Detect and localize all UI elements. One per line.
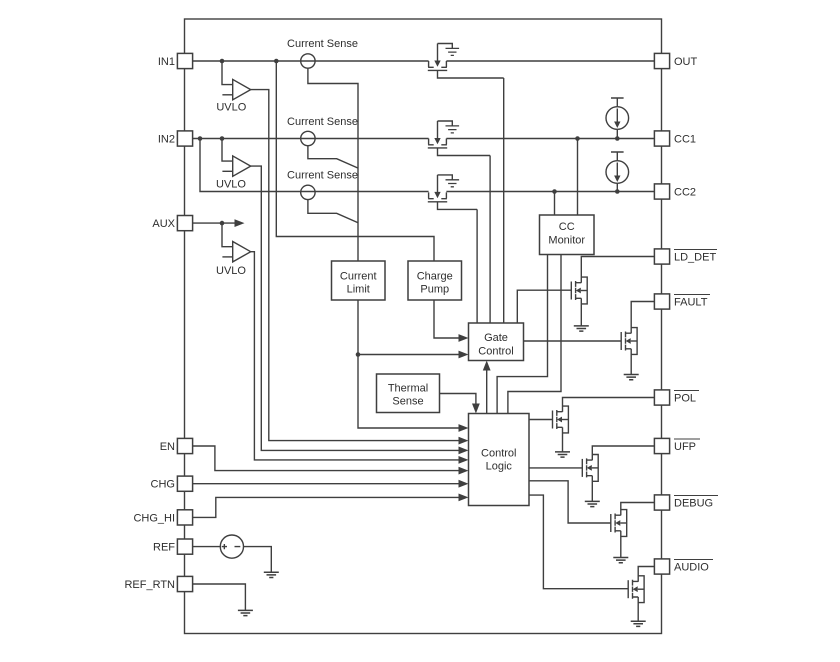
- current sense CS3 circle: [301, 185, 315, 199]
- label AUDIO: [674, 562, 709, 574]
- wire EN to Control Logic: [193, 446, 461, 471]
- svg-text:CC: CC: [559, 221, 575, 233]
- wire IN1 to UVLO1 input: [222, 61, 233, 85]
- block CC Monitor: [540, 215, 595, 255]
- wire LD_DET: [581, 257, 654, 283]
- junction CC1-monitor: [575, 136, 580, 141]
- label Current Sense 2: [287, 116, 358, 128]
- wire Control Logic to Q4 gate: [529, 467, 582, 469]
- transistor Q1 LD_DET: [571, 277, 587, 304]
- label IN1: [158, 56, 175, 68]
- wire Q5 source to ground: [620, 531, 622, 558]
- transistor Q3 POL: [553, 406, 569, 433]
- UVLO1 inverting stub: [222, 94, 232, 96]
- wire Current Sense 2 switch: [308, 146, 358, 168]
- svg-text:Thermal: Thermal: [388, 383, 428, 395]
- svg-text:UVLO: UVLO: [216, 265, 246, 277]
- current source I1: [606, 98, 629, 129]
- svg-text:Charge: Charge: [417, 271, 453, 283]
- wire FAULT: [631, 302, 654, 334]
- ground REF_RTN: [238, 610, 253, 615]
- label REF_RTN: [124, 579, 175, 591]
- wire IN2 to UVLO2 input: [222, 139, 233, 162]
- voltage reference source: [220, 535, 243, 558]
- wire M1 drain to OUT: [446, 60, 654, 62]
- pin AUX: [177, 216, 192, 231]
- wire M2 gate bus: [489, 156, 491, 324]
- pin AUDIO: [654, 559, 669, 574]
- pin CC1: [654, 131, 669, 146]
- ground Q4: [585, 501, 600, 506]
- svg-text:Control: Control: [478, 346, 513, 358]
- wire REF: [193, 547, 272, 573]
- pin FAULT: [654, 294, 669, 309]
- svg-text:FAULT: FAULT: [674, 297, 708, 309]
- wire Current Sense 3 switch: [308, 200, 358, 223]
- transistor Q6 AUDIO: [628, 576, 644, 603]
- label UVLO U3: [216, 265, 246, 277]
- wire AUX: [193, 222, 236, 224]
- wire Charge Pump to Gate Control: [434, 300, 460, 338]
- junction IN2-UVLO2: [220, 136, 225, 141]
- wire CHG_HI to Control Logic: [193, 497, 461, 517]
- junction AUX-UVLO3: [220, 221, 225, 226]
- wire Gate Control to Q1 gate: [517, 290, 571, 323]
- svg-text:CHG: CHG: [151, 479, 175, 491]
- arrow CHG_HI into Control Logic: [459, 494, 469, 502]
- pin REF_RTN: [177, 576, 192, 591]
- label CC1: [674, 134, 696, 146]
- wire Current Limit to Control Logic: [358, 355, 460, 429]
- wire IN1 to Charge Pump: [276, 61, 434, 261]
- ground Q5: [613, 558, 628, 563]
- wire POL: [563, 398, 655, 412]
- wire CHG to Control Logic: [193, 483, 461, 485]
- wire Q3 source to ground: [562, 427, 564, 452]
- junction IN2 branch: [198, 136, 203, 141]
- junction CC2-I2: [615, 189, 620, 194]
- svg-text:UVLO: UVLO: [216, 178, 246, 190]
- svg-text:AUDIO: AUDIO: [674, 562, 709, 574]
- arrow Thermal Sense into Control Logic: [472, 404, 480, 414]
- arrow AUX: [235, 219, 245, 227]
- wire Gate Control to Q2 gate: [524, 340, 622, 342]
- svg-text:Logic: Logic: [486, 461, 513, 473]
- junction current limit branch: [356, 352, 361, 357]
- wire M3 gate bus: [476, 209, 478, 323]
- transistor Q4 UFP: [582, 455, 598, 482]
- svg-text:UVLO: UVLO: [216, 101, 246, 113]
- label UVLO U1: [216, 101, 246, 113]
- block Gate Control: [469, 323, 524, 361]
- wire Thermal Sense to Control Logic: [440, 394, 476, 406]
- label POL: [674, 393, 696, 405]
- wire I1 to CC1 line: [616, 129, 618, 138]
- svg-text:DEBUG: DEBUG: [674, 498, 713, 510]
- label REF: [153, 542, 175, 554]
- svg-text:Gate: Gate: [484, 332, 508, 344]
- block Charge Pump: [408, 261, 462, 300]
- overline UFP: [674, 438, 700, 440]
- wire IN2 to FET M2: [193, 138, 429, 140]
- svg-text:EN: EN: [160, 441, 175, 453]
- overline AUDIO: [674, 559, 713, 561]
- current sense CS2 circle: [301, 131, 315, 145]
- label CHG_HI: [133, 512, 175, 524]
- wire M1 gate bus: [503, 78, 505, 323]
- svg-text:POL: POL: [674, 393, 696, 405]
- svg-text:CC1: CC1: [674, 134, 696, 146]
- wire UVLO2 output to Control Logic: [251, 166, 460, 450]
- label UVLO U2: [216, 178, 246, 190]
- block Thermal Sense: [377, 374, 440, 413]
- wire Q1 source to ground: [580, 298, 582, 326]
- ground Q6: [631, 621, 646, 626]
- svg-text:CHG_HI: CHG_HI: [133, 512, 175, 524]
- wire Current Sense 1 to Current Limit: [308, 68, 358, 261]
- label CHG: [151, 479, 175, 491]
- svg-text:LD_DET: LD_DET: [674, 252, 716, 264]
- junction IN1-UVLO1: [220, 59, 225, 64]
- wire M3 drain to CC2: [446, 191, 654, 193]
- wire UFP: [592, 446, 654, 460]
- svg-text:Current: Current: [340, 271, 377, 283]
- UVLO3 inverting stub: [222, 256, 232, 258]
- label CC2: [674, 187, 696, 199]
- pin IN2: [177, 131, 192, 146]
- pin CC2: [654, 184, 669, 199]
- arrow UVLO2 into Control Logic: [459, 447, 469, 455]
- junction CC1-I1: [615, 136, 620, 141]
- ground Q2: [624, 375, 639, 380]
- pin OUT: [654, 53, 669, 68]
- label FAULT: [674, 297, 708, 309]
- wire IN2 branch to FET M3: [200, 139, 429, 192]
- pin CHG_HI: [177, 510, 192, 525]
- UVLO U3 triangle: [233, 242, 251, 262]
- ground REF: [264, 572, 279, 577]
- wire Q4 source to ground: [591, 476, 593, 502]
- label LD_DET: [674, 252, 716, 264]
- pin IN1: [177, 53, 192, 68]
- pin LD_DET: [654, 249, 669, 264]
- transistor M3 pass FET: [428, 175, 477, 210]
- overline LD_DET: [674, 249, 717, 251]
- svg-text:CC2: CC2: [674, 187, 696, 199]
- pin REF: [177, 539, 192, 554]
- arrow UVLO3 into Control Logic: [459, 456, 469, 464]
- transistor Q5 DEBUG: [611, 510, 627, 537]
- block Current Limit: [332, 261, 386, 300]
- wire AUX to UVLO3 input: [222, 223, 233, 247]
- overline FAULT: [674, 294, 710, 296]
- label DEBUG: [674, 498, 713, 510]
- wire IN1 to FET M1: [193, 60, 429, 62]
- label OUT: [674, 56, 698, 68]
- UVLO U1 triangle: [233, 79, 251, 99]
- wire DEBUG: [621, 503, 655, 516]
- wire UVLO3 output to Control Logic: [251, 252, 460, 460]
- svg-text:REF: REF: [153, 542, 175, 554]
- svg-text:IN1: IN1: [158, 56, 175, 68]
- wire REF_RTN: [193, 584, 246, 610]
- label Current Sense 1: [287, 38, 358, 50]
- ground Q3: [555, 452, 570, 457]
- current sense CS1 circle: [301, 54, 315, 68]
- wire M2 drain to CC1: [446, 138, 654, 140]
- svg-text:Control: Control: [481, 448, 516, 460]
- wire Control Logic to Gate Control: [486, 369, 488, 414]
- svg-text:Limit: Limit: [347, 284, 370, 296]
- transistor M2 pass FET: [428, 121, 490, 156]
- overline POL: [674, 390, 699, 392]
- arrow EN into Control Logic: [459, 467, 469, 475]
- label EN: [160, 441, 175, 453]
- ground Q1: [574, 326, 589, 331]
- UVLO U2 triangle: [233, 156, 251, 176]
- label Current Sense 3: [287, 170, 358, 182]
- wire CC Monitor output B to Control Logic: [508, 255, 561, 414]
- svg-text:REF_RTN: REF_RTN: [124, 579, 175, 591]
- wire AUDIO: [638, 567, 654, 582]
- IC boundary: [185, 19, 662, 634]
- block Control Logic: [469, 414, 530, 506]
- svg-text:UFP: UFP: [674, 441, 696, 453]
- wire Control Logic to Q6 gate: [529, 495, 628, 589]
- svg-text:Current Sense: Current Sense: [287, 116, 358, 128]
- pin EN: [177, 438, 192, 453]
- wire Control Logic to Q3 gate: [529, 419, 553, 421]
- wire I2 to CC2 line: [616, 183, 618, 191]
- current source I2: [606, 152, 629, 183]
- wire CC Monitor output A to Control Logic: [497, 255, 547, 414]
- svg-text:Sense: Sense: [392, 396, 423, 408]
- wire CC2 to CC Monitor: [554, 192, 556, 216]
- svg-text:Monitor: Monitor: [548, 235, 585, 247]
- wire Current Limit to Gate Control: [358, 300, 460, 355]
- pin POL: [654, 390, 669, 405]
- label AUX: [152, 218, 175, 230]
- arrow Control Logic into Gate Control: [483, 361, 491, 371]
- svg-text:Current Sense: Current Sense: [287, 170, 358, 182]
- svg-text:AUX: AUX: [152, 218, 175, 230]
- svg-text:Current Sense: Current Sense: [287, 38, 358, 50]
- svg-text:Pump: Pump: [420, 284, 449, 296]
- wire CC1 to CC Monitor: [577, 139, 579, 216]
- transistor Q2 FAULT: [621, 328, 637, 355]
- junction CC2-monitor: [552, 189, 557, 194]
- overline DEBUG: [674, 495, 718, 497]
- pin CHG: [177, 476, 192, 491]
- arrow UVLO1 into Control Logic: [459, 437, 469, 445]
- arrow CHG into Control Logic: [459, 480, 469, 488]
- svg-text:OUT: OUT: [674, 56, 698, 68]
- label UFP: [674, 441, 696, 453]
- arrow Current Limit into Control Logic: [459, 424, 469, 432]
- wire Q2 source to ground: [630, 349, 632, 375]
- junction IN1-ChargePump: [274, 59, 279, 64]
- pin UFP: [654, 438, 669, 453]
- wire Q6 source to ground: [637, 597, 639, 621]
- label IN2: [158, 134, 175, 146]
- svg-text:IN2: IN2: [158, 134, 175, 146]
- wire UVLO1 output to Control Logic: [251, 90, 460, 441]
- UVLO2 inverting stub: [222, 170, 232, 172]
- transistor M1 pass FET: [428, 44, 504, 79]
- arrow Current Limit into Gate Control: [459, 351, 469, 359]
- arrow Charge Pump into Gate Control: [459, 334, 469, 342]
- wire Control Logic to Q5 gate: [529, 481, 611, 523]
- pin DEBUG: [654, 495, 669, 510]
